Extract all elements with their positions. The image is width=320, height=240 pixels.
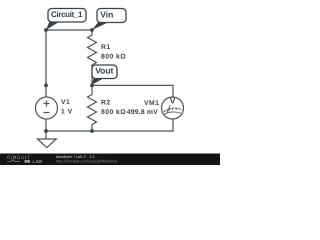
footer logo block mark <box>25 160 31 163</box>
svg-text:R2: R2 <box>101 100 111 107</box>
node label Vin callout <box>92 9 126 31</box>
junction dot Vout node <box>90 84 94 88</box>
svg-text:VM1: VM1 <box>144 100 159 107</box>
resistor R1 <box>88 30 97 85</box>
svg-text:1 V: 1 V <box>61 109 73 116</box>
node label Circuit_1 callout <box>46 9 86 31</box>
svg-text:http://circuitlab.com/c/gsdwfh: http://circuitlab.com/c/gsdwfh63n2nq <box>56 160 117 164</box>
wire left lower: V1 bottom to bottom rail <box>45 119 47 132</box>
svg-text:V1: V1 <box>61 99 70 106</box>
svg-text:CIRCUIT: CIRCUIT <box>7 155 31 160</box>
ground <box>37 131 56 148</box>
junction dot ground tap <box>44 129 48 133</box>
svg-text:Vin: Vin <box>100 10 113 20</box>
voltmeter VM1 <box>162 97 184 119</box>
svg-text:R1: R1 <box>101 44 111 51</box>
wire Vout horizontal <box>92 84 173 86</box>
junction dot left wire mid <box>44 84 48 88</box>
svg-text:800 kΩ: 800 kΩ <box>101 109 126 116</box>
wire top: Vin node to top-left corner <box>46 29 92 31</box>
svg-text:davidtyler / Lab 2 - 1.2: davidtyler / Lab 2 - 1.2 <box>56 154 95 159</box>
junction dot top-left <box>44 28 48 32</box>
svg-text:Circuit_1: Circuit_1 <box>51 10 83 19</box>
junction dot R2 bottom <box>90 129 94 133</box>
junction dot Vin node <box>90 28 94 32</box>
wire right upper: Vout rail to voltmeter top <box>172 85 174 97</box>
svg-text:V: V <box>170 96 176 106</box>
footer logo waveform mark <box>7 160 20 162</box>
voltmeter meter face arcs and needle <box>164 105 182 114</box>
svg-text:499.8 mV: 499.8 mV <box>127 109 158 116</box>
wire bottom rail <box>46 130 173 132</box>
svg-text:Vout: Vout <box>95 66 113 76</box>
footer bar <box>0 154 220 166</box>
svg-text:800 kΩ: 800 kΩ <box>101 53 126 60</box>
wire left upper: corner down to V1 top <box>45 30 47 98</box>
wire right lower: voltmeter bottom to bottom rail <box>172 119 174 131</box>
resistor R2 <box>88 85 97 131</box>
node label Vout callout <box>92 65 118 85</box>
svg-text:LAB: LAB <box>33 159 43 164</box>
voltage source V1 <box>36 97 58 119</box>
